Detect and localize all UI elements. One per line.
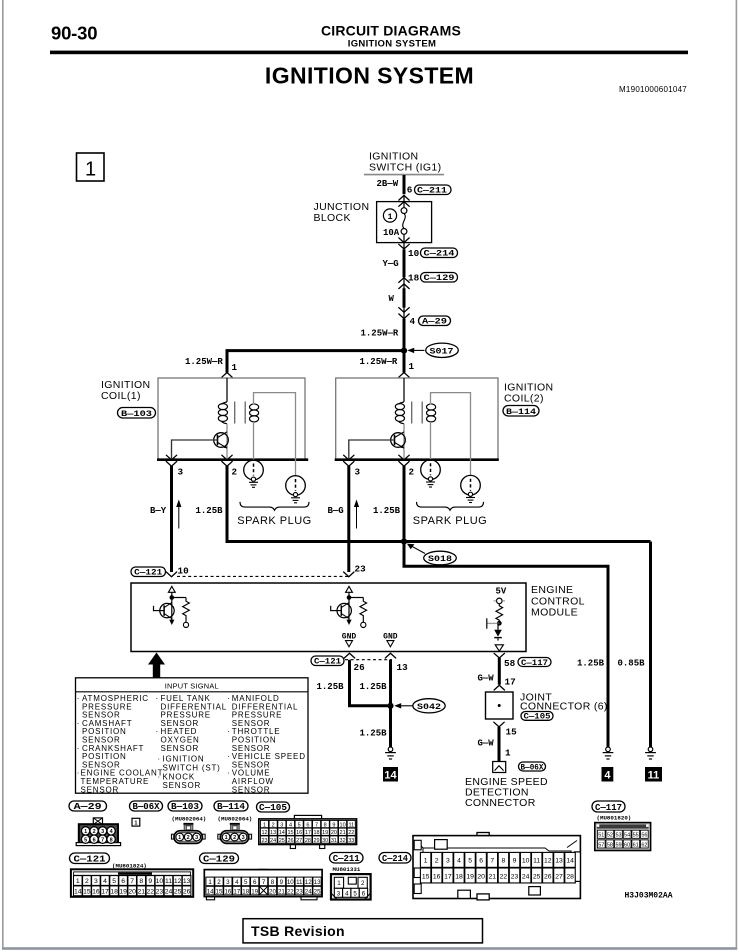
svg-text:26: 26 [354,662,366,673]
svg-text:1.25B: 1.25B [360,729,388,739]
splice S017 arrow [407,348,424,353]
coil1 secondary winding [250,404,259,422]
svg-text:58: 58 [607,842,613,848]
ground ref box 11 [645,767,662,782]
figure number box 1 [77,153,105,181]
coil1 core [235,402,246,424]
coil2 terminal 3 chevrons [344,455,354,466]
spark plug brace coil2 [417,502,484,510]
wire pin 26 ground (1.25B) [350,660,391,706]
svg-text:CONNECTOR (6): CONNECTOR (6) [520,700,608,712]
svg-text:62: 62 [641,842,647,848]
svg-text:B—06X: B—06X [133,802,161,812]
svg-text:B—Y: B—Y [150,506,167,516]
svg-text:10: 10 [287,879,294,886]
svg-text:22: 22 [147,889,155,896]
svg-text:(MU802064): (MU802064) [218,816,253,823]
svg-text:21: 21 [278,888,285,895]
coil2 secondary top wire to plug 2 [431,393,471,476]
svg-text:13: 13 [555,858,563,865]
ECM pin 26 chevron [344,653,354,658]
ECM internal GND 1 [342,632,357,647]
connector label C-117 bottom [592,801,625,813]
svg-text:4: 4 [410,316,416,327]
wire trunk W [403,288,406,307]
svg-text:1: 1 [178,835,181,841]
svg-text:15: 15 [83,889,91,896]
svg-text:2: 2 [409,467,415,478]
splice S042 junction dot [387,703,393,709]
engine speed detection connector label [465,776,548,809]
svg-text:11: 11 [296,879,303,886]
svg-text:23: 23 [261,838,267,844]
svg-text:CIRCUIT DIAGRAMS: CIRCUIT DIAGRAMS [321,23,461,39]
wire to ground 11 [649,542,652,748]
spark plug 2b [461,475,481,502]
svg-text:1: 1 [337,880,341,887]
svg-text:16: 16 [433,873,441,880]
coil2 transistor base wire [349,440,395,460]
ECM diode D1 [494,623,502,641]
svg-text:C—211: C—211 [417,186,447,196]
svg-text:20: 20 [128,889,136,896]
svg-text:·: · [77,719,80,728]
svg-text:26: 26 [544,873,552,880]
svg-text:3: 3 [94,878,98,885]
svg-text:8: 8 [139,878,143,885]
connector label B-103 bottom [168,801,202,812]
wire trunk to coil 2 [403,351,406,373]
ignition coil 1 label [101,379,150,402]
svg-text:S018: S018 [428,554,452,564]
svg-text:19: 19 [466,873,474,880]
svg-text:B—103: B—103 [171,802,199,812]
svg-text:6: 6 [306,822,309,828]
svg-text:1: 1 [134,821,137,827]
svg-text:33: 33 [348,838,354,844]
svg-text:1: 1 [409,361,415,372]
coil2 core [412,402,423,424]
svg-text:12: 12 [261,830,267,836]
svg-text:C—211: C—211 [333,853,360,864]
svg-text:15: 15 [506,727,518,738]
svg-text:COIL(1): COIL(1) [101,390,141,402]
coil1 terminal 3 chevrons [166,455,176,466]
svg-text:22: 22 [348,830,354,836]
input signal column 3 [227,694,305,794]
joint connector box [486,692,514,719]
svg-text:16: 16 [224,888,231,895]
svg-text:B—114: B—114 [217,802,246,812]
svg-text:25: 25 [533,873,541,880]
flow arrow coil2 [354,500,359,529]
svg-text:17: 17 [233,888,240,895]
svg-text:·: · [156,694,159,703]
svg-text:(MU802064): (MU802064) [172,816,207,823]
connector label C-105 bottom [257,802,290,813]
svg-text:2: 2 [272,822,275,828]
svg-text:·: · [158,755,161,764]
svg-text:ENGINE: ENGINE [531,584,573,596]
svg-text:·: · [77,694,80,703]
svg-text:·: · [227,752,230,761]
svg-text:5V: 5V [496,587,507,597]
coil2 transistor Q2 [391,424,406,460]
svg-text:4: 4 [604,770,611,782]
svg-text:1.25W—R: 1.25W—R [185,357,223,367]
svg-text:CONNECTOR: CONNECTOR [465,797,536,809]
input signal box [76,678,309,793]
ECM 5V resistor R3 [496,604,503,623]
svg-text:1: 1 [505,748,511,759]
svg-text:57: 57 [598,842,604,848]
svg-text:13: 13 [397,662,409,673]
svg-text:31: 31 [331,838,337,844]
page right border [736,0,738,948]
connector C-214 [421,248,458,259]
ECM terminal 10 chevron [166,572,176,577]
ECM bottom dashed line [345,659,392,661]
connector C-121 label lower [311,656,344,667]
wire 58 to joint connector (G-W) [498,658,501,685]
svg-text:·: · [227,727,230,736]
svg-text:SWITCH (ST): SWITCH (ST) [163,763,221,772]
wire S018 branch to ground 4 [404,542,608,748]
svg-text:7: 7 [315,822,318,828]
svg-text:17: 17 [505,677,516,688]
ignition coil 1 box [158,378,305,460]
svg-text:14: 14 [207,888,214,895]
svg-text:53: 53 [615,833,621,839]
ignition coil 2 box [336,378,498,460]
svg-text:4: 4 [345,890,349,897]
svg-text:24: 24 [522,873,530,880]
svg-text:59: 59 [615,842,621,848]
svg-text:16: 16 [92,889,100,896]
coil1 primary winding [218,402,227,424]
svg-text:SENSOR: SENSOR [232,785,271,794]
ignition coil 2 label [504,382,553,405]
wire thin through A-29 [403,308,405,320]
svg-text:23: 23 [296,888,303,895]
chevron pair below C-129 [399,278,409,289]
svg-text:1.25B: 1.25B [373,506,401,516]
svg-text:22: 22 [500,873,508,880]
svg-text:24: 24 [270,838,276,844]
chevron pair below junction block [399,238,409,249]
svg-text:2: 2 [361,880,365,887]
coil1 primary feed wire [226,378,228,402]
TSB revision box [243,919,483,943]
svg-text:7: 7 [490,858,494,865]
svg-text:·: · [158,773,161,782]
svg-text:SENSOR: SENSOR [163,781,202,790]
spark plug brace coil1 [240,502,309,510]
connector B-103 label [118,408,156,419]
svg-text:3: 3 [101,829,104,835]
ground ref box 14 [383,767,398,782]
splice S017 junction dot [401,348,407,354]
ignition switch label [369,151,441,174]
ECM pull-up resistor R2 [360,598,367,628]
svg-text:23: 23 [156,889,164,896]
input signal column 2 [156,694,228,790]
connector C-117 label upper [518,658,551,668]
ECM terminal 23 chevron [344,572,354,577]
svg-text:54: 54 [624,833,630,839]
svg-text:3: 3 [280,822,283,828]
svg-text:4: 4 [103,878,107,885]
coil1 terminal 2 chevrons [222,455,232,466]
wire coil1 pin2 ground run [227,466,651,542]
svg-text:S017: S017 [430,346,454,356]
splice S018 junction dot [401,538,407,544]
spark plug 1a [244,460,264,487]
svg-text:30: 30 [322,838,328,844]
svg-text:1.25W—R: 1.25W—R [361,329,399,339]
svg-text:12: 12 [174,878,182,885]
spark plug 1b [286,476,306,503]
svg-text:19: 19 [322,830,328,836]
svg-text:21: 21 [489,873,497,880]
svg-text:8: 8 [110,837,113,843]
connector label C-211 bottom [330,853,364,864]
chevron pair above junction block [399,195,409,206]
header rule [50,51,688,55]
wire joint connector to B-06X (G-W) [498,727,501,766]
connector drawing C-117 [595,823,651,851]
svg-text:4: 4 [235,879,239,886]
svg-text:14: 14 [279,830,285,836]
connector drawing C-214 [413,833,580,900]
svg-text:51: 51 [598,833,604,839]
svg-text:G—W: G—W [478,739,495,749]
svg-text:10: 10 [156,878,164,885]
svg-text:SENSOR: SENSOR [161,744,200,753]
svg-text:61: 61 [633,842,639,848]
svg-text:7: 7 [101,837,104,843]
svg-text:2: 2 [93,829,96,835]
wire branch to coil 1 [227,351,404,373]
svg-text:2: 2 [233,835,236,841]
svg-text:2B—W: 2B—W [377,179,399,189]
junction block box [377,202,432,243]
svg-text:13: 13 [314,879,321,886]
svg-text:15: 15 [216,888,223,895]
svg-text:18: 18 [242,888,249,895]
svg-text:4: 4 [457,858,461,865]
svg-text:9: 9 [280,879,284,886]
svg-text:1: 1 [424,858,428,865]
svg-text:22: 22 [287,888,294,895]
connector C-129 [421,273,458,284]
connector drawing C-211 [331,874,371,899]
connector C-211 [415,185,452,196]
ground ref box 4 [602,767,614,782]
svg-text:5: 5 [84,837,87,843]
svg-text:C—129: C—129 [203,853,235,864]
wire trunk 1.25W-R [403,319,406,352]
svg-text:25: 25 [174,889,182,896]
svg-text:COIL(2): COIL(2) [504,393,544,405]
connector drawing A-29 [76,818,120,846]
svg-text:18: 18 [455,873,463,880]
svg-text:B—06X: B—06X [521,762,545,772]
connector B-114 label [503,406,539,417]
svg-text:20: 20 [477,873,485,880]
svg-text:5: 5 [244,879,248,886]
coil2 primary winding [395,402,404,424]
connector C-121 label upper [131,567,166,578]
wire thin through C-129 [403,277,405,289]
svg-text:6: 6 [253,879,257,886]
svg-text:32: 32 [340,838,346,844]
junction block label [314,201,370,224]
connector drawing C-105 [259,815,357,848]
wire coil1 pin3 to ECM pin10 (B-Y) [170,466,173,572]
connector drawing C-121 [71,869,193,897]
svg-text:11: 11 [648,770,660,782]
svg-text:7: 7 [262,879,266,886]
svg-text:1.25W—R: 1.25W—R [360,357,398,367]
connector A-29 [419,316,451,327]
splice S018 label oval [424,551,457,565]
ECM pin 58 chevron [494,653,504,658]
splice S042 label oval [413,699,445,713]
svg-text:C—121: C—121 [74,853,106,864]
page left border [2,0,4,948]
svg-text:5: 5 [112,878,116,885]
ignition switch bus line [364,174,444,176]
svg-text:17: 17 [305,830,311,836]
ECM input terminal triangle 10 [168,586,175,592]
svg-text:3: 3 [195,835,198,841]
svg-text:56: 56 [641,833,647,839]
ECM output terminal triangle 58 [495,645,503,651]
svg-text:5: 5 [353,890,357,897]
svg-text:C—121: C—121 [134,568,162,578]
svg-text:21: 21 [340,830,346,836]
wire pin 13 ground (1.25B) [389,660,392,747]
svg-text:23: 23 [511,873,519,880]
svg-text:SENSOR: SENSOR [81,785,120,794]
svg-text:18: 18 [110,889,118,896]
svg-text:27: 27 [296,838,302,844]
svg-text:6: 6 [93,837,96,843]
svg-text:13: 13 [270,830,276,836]
svg-text:1.25B: 1.25B [196,506,224,516]
svg-text:3: 3 [178,467,184,478]
coil1 secondary top wire to plug 2 [254,393,296,476]
svg-text:25: 25 [279,838,285,844]
svg-text:0.85B: 0.85B [618,659,646,669]
ground symbol for wire 4 [603,747,614,759]
svg-text:1: 1 [232,362,238,373]
svg-text:2: 2 [435,858,439,865]
svg-text:10: 10 [178,566,190,577]
svg-text:24: 24 [165,889,173,896]
coil1 transistor Q1 [214,424,229,460]
svg-text:INPUT SIGNAL: INPUT SIGNAL [165,682,219,691]
svg-text:6: 6 [479,858,483,865]
svg-text:C—105: C—105 [524,712,551,722]
svg-text:Y—G: Y—G [383,259,399,269]
svg-text:B—103: B—103 [121,409,152,419]
svg-text:6: 6 [407,185,413,196]
svg-text:·: · [156,727,159,736]
svg-text:C—129: C—129 [424,273,455,283]
svg-text:2: 2 [85,878,89,885]
svg-text:12: 12 [544,858,552,865]
svg-text:20: 20 [269,888,276,895]
svg-text:8: 8 [271,879,275,886]
coil2 primary feed wire [403,378,405,402]
coil1 terminal 1 chevron [222,373,232,378]
wire trunk Y-G [403,250,406,278]
svg-text:C—105: C—105 [259,803,287,813]
svg-text:3: 3 [242,835,245,841]
ECM driver transistor U1b [331,592,364,625]
svg-text:10: 10 [408,248,420,259]
ECM input terminal triangle 23 [346,586,353,592]
connector label C-129 bottom [200,853,239,864]
svg-text:7: 7 [130,878,134,885]
svg-text:10: 10 [522,858,530,865]
coil2 terminal 1 chevron [399,373,409,378]
svg-text:TSB Revision: TSB Revision [251,923,345,939]
svg-text:A—29: A—29 [74,802,102,812]
svg-text:28: 28 [305,838,311,844]
ECM internal tap [487,618,500,628]
connector B-06X label upper [519,762,546,772]
coil1 secondary bottom wire to plug 1 [253,422,255,461]
svg-text:4: 4 [289,822,292,828]
svg-text:21: 21 [138,889,146,896]
connector label B-06X bottom [130,801,163,812]
svg-text:17: 17 [444,873,452,880]
svg-text:55: 55 [633,833,639,839]
svg-text:58: 58 [504,658,516,669]
svg-text:SWITCH (IG1): SWITCH (IG1) [369,162,441,174]
ground symbol for wire 11 [645,747,656,759]
svg-text:6: 6 [121,878,125,885]
svg-text:27: 27 [555,873,563,880]
svg-text:9: 9 [332,822,335,828]
splice S042 arrow [394,703,413,708]
svg-text:3: 3 [226,879,230,886]
ECM 5V node dot [497,621,502,626]
svg-text:2: 2 [232,467,238,478]
connector C-105 label [521,712,553,722]
ground symbol for wire 14 [385,747,396,759]
wire coil2 pin3 to ECM pin23 (B-G) [347,466,350,572]
svg-text:BLOCK: BLOCK [314,212,351,224]
svg-text:2: 2 [217,879,221,886]
svg-text:B—G: B—G [328,506,344,516]
svg-text:(MU801820): (MU801820) [597,815,632,822]
ECM pin 13 chevron [385,653,395,658]
svg-text:25: 25 [314,888,321,895]
fuse circuit number circle 1 [383,209,396,222]
svg-text:19: 19 [251,888,258,895]
svg-text:MU801331: MU801331 [333,866,361,873]
svg-text:16: 16 [296,830,302,836]
svg-text:3: 3 [337,890,341,897]
svg-text:18: 18 [408,273,420,284]
connector drawing B-103 [171,823,205,844]
ECM internal GND 2 [383,632,398,647]
page bottom border [2,947,737,950]
